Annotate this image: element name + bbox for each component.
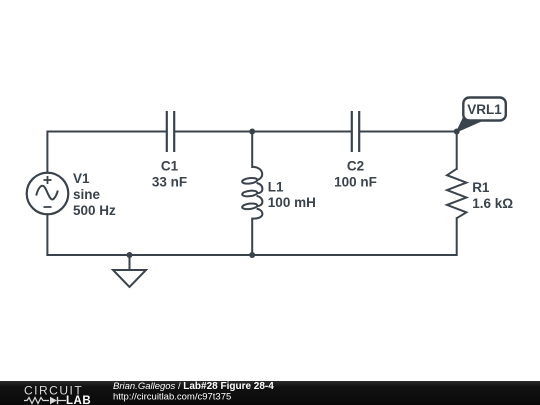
ground: [113, 255, 146, 287]
label C1 value: [152, 159, 187, 190]
svg-text:sine: sine: [73, 187, 101, 202]
footer logo resistor-diode symbol: [24, 398, 66, 404]
wire top-left from V1 to C1: [47, 132, 166, 173]
capacitor C1: [167, 111, 174, 152]
footer bar: [0, 381, 540, 405]
svg-text:LAB: LAB: [66, 395, 91, 405]
svg-text:1.6 kΩ: 1.6 kΩ: [472, 196, 513, 211]
svg-text:Brian.Gallegos / Lab#28 Figure: Brian.Gallegos / Lab#28 Figure 28-4: [113, 381, 274, 392]
node ground junction: [127, 252, 133, 258]
svg-text:V1: V1: [73, 171, 90, 186]
svg-text:500 Hz: 500 Hz: [73, 203, 116, 218]
label R1 value: [472, 180, 513, 211]
capacitor C2: [352, 111, 359, 152]
svg-text:R1: R1: [472, 180, 490, 195]
probe flag VRL1 box: [463, 98, 506, 121]
wire L1 top lead: [251, 132, 253, 168]
svg-text:C1: C1: [161, 159, 179, 174]
voltage source V1: [27, 173, 69, 215]
wire C1 to node A: [175, 131, 351, 133]
label L1 value: [268, 180, 316, 211]
svg-text:VRL1: VRL1: [467, 102, 502, 117]
svg-text:L1: L1: [268, 180, 284, 195]
node L1 bottom junction: [249, 252, 255, 258]
wire L1 bottom lead: [251, 219, 253, 255]
label C2 value: [334, 159, 377, 190]
inductor L1: [242, 167, 263, 219]
probe flag VRL1 pointer: [457, 118, 482, 132]
svg-text:33 nF: 33 nF: [152, 175, 187, 190]
wire R1 top lead: [456, 132, 458, 169]
wire bottom rail: [47, 218, 456, 255]
svg-text:100 nF: 100 nF: [334, 175, 377, 190]
wire C2 to node B: [360, 131, 457, 133]
label V1 value: [73, 171, 116, 218]
svg-text:100 mH: 100 mH: [268, 195, 316, 210]
svg-text:http://circuitlab.com/c97t375: http://circuitlab.com/c97t375: [113, 391, 231, 402]
node A (C1/L1/C2 junction): [249, 129, 255, 135]
node B (C2/R1/VRL1 junction): [454, 129, 460, 135]
wire V1 bottom to bottom rail: [46, 214, 48, 255]
svg-text:C2: C2: [347, 159, 364, 174]
resistor R1: [447, 169, 466, 218]
